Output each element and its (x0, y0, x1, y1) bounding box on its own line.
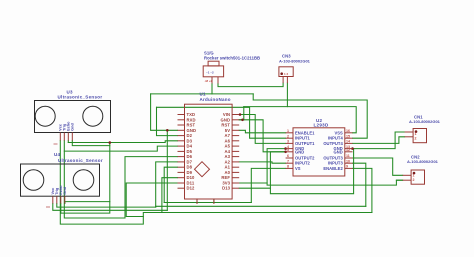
svg-text:GND: GND (295, 149, 304, 154)
svg-text:GND: GND (334, 149, 343, 154)
svg-text:10: 10 (346, 159, 350, 163)
svg-text:U1: U1 (200, 92, 206, 97)
svg-text:D13: D13 (222, 186, 231, 191)
svg-text:2: 2 (287, 134, 289, 138)
svg-text:14: 14 (346, 140, 350, 144)
svg-text:ArduinoNano: ArduinoNano (200, 97, 231, 102)
svg-text:1: 1 (287, 129, 289, 133)
svg-text:7: 7 (287, 159, 289, 163)
svg-text:A6: A6 (225, 138, 231, 143)
svg-text:9: 9 (346, 165, 348, 169)
svg-text:5: 5 (287, 148, 289, 152)
svg-text:Ultrasonic_Sensor: Ultrasonic_Sensor (58, 95, 103, 100)
svg-text:3: 3 (287, 140, 289, 144)
svg-text:1: 1 (413, 173, 415, 177)
svg-text:D12: D12 (187, 186, 196, 191)
svg-text:ENABLE1: ENABLE1 (295, 130, 315, 135)
svg-text:Gnd: Gnd (63, 186, 67, 194)
svg-text:ENABLE2: ENABLE2 (323, 166, 343, 171)
svg-text:GND: GND (187, 128, 197, 133)
svg-text:REF: REF (221, 175, 230, 180)
svg-text:A3: A3 (225, 154, 231, 159)
svg-text:A5: A5 (225, 144, 231, 149)
svg-text:11: 11 (346, 154, 350, 158)
svg-text:15: 15 (346, 134, 350, 138)
svg-text:1: 1 (415, 132, 417, 136)
svg-text:D3: D3 (187, 138, 193, 143)
svg-text:5V: 5V (225, 128, 230, 133)
svg-text:A-103-80002G01: A-103-80002G01 (407, 159, 439, 164)
svg-text:~1 ~2: ~1 ~2 (206, 71, 214, 75)
svg-text:6: 6 (287, 154, 289, 158)
svg-text:Rocker switch501-1C211BB: Rocker switch501-1C211BB (204, 56, 260, 61)
svg-text:VIN: VIN (223, 112, 230, 117)
svg-text:1 2: 1 2 (284, 72, 289, 76)
svg-text:L293D: L293D (314, 123, 329, 128)
svg-text:D10: D10 (187, 175, 196, 180)
svg-text:A-103-80002G01: A-103-80002G01 (409, 119, 441, 124)
svg-text:VS: VS (295, 166, 301, 171)
svg-text:D4: D4 (187, 144, 193, 149)
svg-text:16: 16 (346, 129, 350, 133)
svg-text:2: 2 (413, 178, 415, 182)
svg-text:D7: D7 (187, 159, 193, 164)
svg-text:RST: RST (187, 123, 196, 128)
svg-text:A2: A2 (225, 159, 231, 164)
svg-text:VSS: VSS (334, 130, 343, 135)
svg-text:12: 12 (346, 148, 350, 152)
svg-text:8: 8 (287, 165, 289, 169)
svg-text:U4: U4 (54, 152, 61, 157)
svg-text:TXD: TXD (187, 112, 196, 117)
svg-text:D6: D6 (187, 154, 193, 159)
svg-text:-M +L: -M +L (205, 79, 213, 83)
svg-text:2: 2 (415, 137, 417, 141)
svg-text:A0: A0 (225, 170, 231, 175)
svg-text:Gnd: Gnd (71, 123, 75, 131)
svg-text:D9: D9 (187, 170, 193, 175)
svg-text:A-103-80002G01: A-103-80002G01 (279, 59, 311, 64)
svg-text:Ultrasonic_Sensor: Ultrasonic_Sensor (58, 158, 103, 163)
svg-text:RST: RST (221, 123, 230, 128)
